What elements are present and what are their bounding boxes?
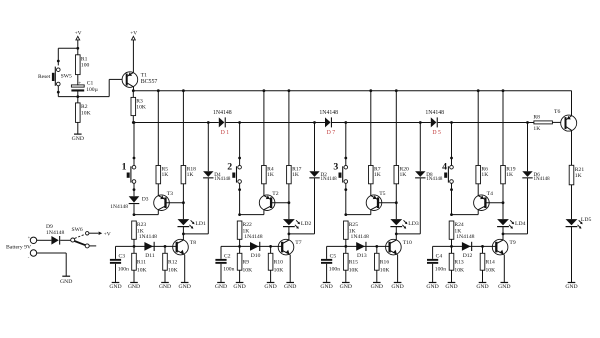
diode D12 1N4148	[456, 234, 474, 259]
node switch 2 top	[238, 121, 241, 159]
svg-text:R3: R3	[136, 98, 143, 104]
svg-text:GND: GND	[371, 284, 383, 290]
switch SW6	[71, 227, 97, 248]
wire switch 2 to junction	[239, 190, 241, 215]
svg-text:GND: GND	[320, 284, 332, 290]
svg-text:1K: 1K	[533, 126, 540, 132]
ground (T10)	[391, 283, 403, 291]
svg-text:GND: GND	[233, 284, 245, 290]
svg-text:GND: GND	[498, 284, 510, 290]
svg-text:10K: 10K	[81, 110, 91, 116]
node lower bus left	[344, 245, 347, 248]
svg-text:1K: 1K	[374, 172, 381, 178]
LED LD4	[497, 219, 525, 229]
wire T5 collector	[370, 210, 372, 215]
wire lower bus	[433, 245, 497, 247]
svg-text:+V: +V	[104, 231, 111, 237]
wire D8 to LD3 junction	[396, 178, 420, 234]
svg-text:T4: T4	[487, 191, 493, 197]
svg-text:1K: 1K	[292, 172, 299, 178]
node switch 3 top	[344, 121, 347, 159]
svg-text:R16: R16	[380, 260, 390, 266]
wire R4 to T2 emitter	[263, 184, 265, 196]
transistor T3	[154, 191, 173, 210]
svg-text:1K: 1K	[267, 172, 274, 178]
node LD4 cathode junction	[502, 227, 505, 240]
resistor R23 1K	[132, 221, 147, 246]
wire battery + to D9	[37, 239, 52, 241]
svg-text:T10: T10	[403, 240, 412, 246]
svg-text:C3: C3	[119, 254, 126, 260]
svg-text:R24: R24	[454, 222, 464, 228]
node lower bus left	[238, 245, 241, 248]
LED LD5	[566, 217, 592, 229]
node T7 base junction	[269, 245, 272, 248]
transistor T2	[259, 191, 278, 210]
ground (T8)	[179, 283, 191, 291]
svg-text:T5: T5	[379, 191, 385, 197]
svg-text:T8: T8	[190, 240, 196, 246]
svg-text:GND: GND	[445, 284, 457, 290]
svg-text:4: 4	[442, 162, 447, 173]
resistor R13 10K	[449, 246, 464, 282]
wire T7 emitter to ground	[289, 255, 291, 282]
ground (C4)	[426, 283, 438, 291]
svg-text:100n: 100n	[223, 267, 234, 273]
resistor R5 1K	[156, 89, 168, 184]
svg-text:GND: GND	[215, 284, 227, 290]
resistor R15 10K	[344, 246, 359, 282]
node R24 top junction	[450, 213, 478, 216]
svg-text:Battery 9V: Battery 9V	[6, 245, 32, 251]
svg-text:R22: R22	[243, 222, 253, 228]
svg-text:100n: 100n	[435, 267, 446, 273]
svg-text:1K: 1K	[575, 173, 582, 179]
ground (battery)	[60, 276, 72, 285]
diode D6 1N4148	[522, 121, 550, 182]
diode D11 1N4148	[139, 234, 157, 259]
diode D10 1N4148	[244, 234, 262, 259]
resistor R17 1K	[287, 89, 302, 184]
svg-text:T1: T1	[141, 72, 147, 78]
resistor R14 10K	[480, 246, 495, 282]
node T9 base junction	[481, 245, 484, 248]
node LD3 cathode junction	[395, 227, 398, 240]
wire T2 base	[271, 202, 289, 204]
svg-text:1N4148: 1N4148	[321, 177, 338, 182]
svg-text:10K: 10K	[349, 267, 359, 273]
svg-text:GND: GND	[264, 284, 276, 290]
svg-text:1N4148: 1N4148	[244, 234, 262, 240]
svg-text:R21: R21	[575, 167, 585, 173]
wire T10 emitter to ground	[397, 255, 399, 282]
svg-text:1N4148: 1N4148	[351, 234, 369, 240]
svg-text:C2: C2	[224, 254, 231, 260]
wire base net	[58, 79, 122, 96]
svg-text:GND: GND	[109, 284, 121, 290]
wire D6 to LD4 junction	[503, 178, 528, 234]
node LD1 cathode junction	[182, 227, 185, 240]
svg-text:1N4148: 1N4148	[139, 234, 157, 240]
ground (R13)	[445, 283, 457, 291]
svg-text:1N4148: 1N4148	[534, 177, 551, 182]
power +V (reset rail)	[75, 30, 82, 48]
wire rail to SW5	[58, 48, 78, 61]
svg-text:Reset: Reset	[38, 74, 51, 80]
battery 9V terminals	[6, 234, 37, 259]
ground (R15)	[340, 283, 352, 291]
svg-text:GND: GND	[391, 284, 403, 290]
wire D3 to junction	[133, 204, 135, 215]
transistor T8	[173, 239, 197, 255]
svg-text:D 1: D 1	[221, 130, 230, 136]
transistor T10	[386, 239, 412, 255]
svg-text:T9: T9	[509, 240, 515, 246]
diode D8 1N4148	[415, 121, 443, 182]
wire base bus segment 2	[226, 122, 325, 124]
svg-text:GND: GND	[565, 284, 577, 290]
svg-text:T3: T3	[167, 191, 173, 197]
wire T5 base	[378, 202, 396, 204]
svg-text:10K: 10K	[136, 105, 146, 111]
svg-text:D3: D3	[142, 197, 149, 203]
wire switch 1 to D3	[133, 190, 135, 197]
svg-text:100n: 100n	[329, 267, 340, 273]
svg-text:1N4148: 1N4148	[213, 110, 232, 116]
diode D3 1N4148	[110, 196, 148, 210]
resistor R1 100	[76, 48, 90, 85]
resistor R6 1K	[476, 89, 488, 184]
svg-text:SW6: SW6	[72, 227, 83, 233]
svg-text:100: 100	[81, 63, 90, 69]
node T1 collector junction	[132, 89, 135, 92]
svg-text:R13: R13	[454, 260, 464, 266]
ground (T7)	[284, 283, 296, 291]
svg-text:1N4148: 1N4148	[110, 204, 128, 210]
node T10 base junction	[375, 245, 378, 248]
svg-text:R12: R12	[168, 260, 178, 266]
ground (T9)	[498, 283, 510, 291]
svg-text:GND: GND	[426, 284, 438, 290]
svg-text:10K: 10K	[274, 267, 284, 273]
wire T8 emitter to ground	[184, 255, 186, 282]
wire T3 collector	[157, 210, 159, 215]
resistor R25 1K	[344, 221, 359, 246]
node R22 top junction	[238, 213, 264, 216]
svg-text:SW5: SW5	[61, 74, 72, 80]
svg-text:1K: 1K	[162, 172, 169, 178]
switch SW5 (Reset)	[38, 60, 72, 97]
svg-text:LD1: LD1	[195, 221, 206, 227]
svg-text:GND: GND	[72, 136, 84, 142]
svg-text:R11: R11	[137, 260, 146, 266]
ground (R11)	[128, 283, 140, 291]
wire D4 to LD1 junction	[183, 178, 208, 234]
switch 3	[333, 158, 347, 191]
wire R17 to LD2	[288, 184, 291, 219]
svg-text:+V: +V	[130, 30, 137, 36]
ground (C2)	[215, 283, 227, 291]
capacitor C2 100n	[215, 246, 234, 282]
ground (R16)	[371, 283, 383, 291]
svg-text:1N4148: 1N4148	[46, 230, 64, 236]
wire R5 to T3 emitter	[157, 184, 159, 196]
wire T6 emitter to bus	[571, 91, 573, 116]
resistor R7 1K	[369, 89, 381, 184]
wire T9 emitter to ground	[503, 255, 505, 282]
svg-text:GND: GND	[60, 279, 72, 285]
wire R19 to LD4	[502, 184, 505, 219]
svg-text:R1: R1	[81, 56, 88, 62]
resistor R20 1K	[394, 89, 409, 184]
wire T3 base	[166, 202, 184, 204]
svg-text:1N4148: 1N4148	[319, 110, 338, 116]
wire T4 collector	[477, 210, 479, 215]
ground (C5)	[320, 283, 332, 291]
svg-text:T6: T6	[554, 109, 560, 115]
svg-text:10K: 10K	[168, 267, 178, 273]
ground (R14)	[476, 283, 488, 291]
ground (R10)	[264, 283, 276, 291]
LED LD2	[283, 219, 311, 229]
wire R8 to T6 base	[552, 121, 561, 123]
resistor R21 1K	[569, 165, 584, 185]
svg-text:BC557: BC557	[141, 79, 158, 85]
wire lower bus	[116, 245, 177, 247]
wire D9 to SW6	[60, 239, 70, 241]
ground (C3)	[109, 283, 121, 291]
power +V (T1 emitter)	[130, 30, 137, 72]
svg-text:1K: 1K	[481, 172, 488, 178]
svg-text:3: 3	[333, 162, 338, 173]
svg-text:LD3: LD3	[408, 221, 419, 227]
capacitor C3 100n	[110, 246, 129, 282]
svg-text:GND: GND	[159, 284, 171, 290]
resistor R3 10K	[131, 91, 146, 123]
svg-text:GND: GND	[284, 284, 296, 290]
capacitor C1 100u	[71, 80, 98, 96]
wire T6 collector	[571, 130, 573, 165]
diode D9 1N4148	[46, 224, 64, 245]
node lower bus left	[450, 245, 453, 248]
svg-text:D10: D10	[251, 253, 261, 259]
svg-text:10K: 10K	[486, 267, 496, 273]
diode D5 1N4148	[425, 110, 444, 136]
svg-text:1N4148: 1N4148	[426, 177, 443, 182]
svg-text:D12: D12	[463, 253, 473, 259]
svg-text:C1: C1	[87, 81, 94, 87]
svg-text:+: +	[78, 80, 81, 86]
svg-text:R9: R9	[243, 260, 250, 266]
LED LD1	[178, 219, 206, 229]
svg-text:R2: R2	[81, 104, 88, 110]
wire R18 to LD1	[182, 184, 185, 219]
svg-text:1: 1	[122, 162, 127, 173]
resistor R2 10K	[76, 97, 91, 134]
transistor T1 BC557	[122, 72, 157, 88]
transistor T5	[366, 191, 385, 210]
wire LD5 to ground	[571, 227, 573, 282]
resistor R10 10K	[268, 246, 283, 282]
wire top supply bus	[133, 91, 571, 116]
svg-text:+V: +V	[75, 30, 82, 36]
resistor R9 10K	[237, 246, 252, 282]
svg-text:1K: 1K	[506, 172, 513, 178]
svg-text:R23: R23	[137, 222, 147, 228]
resistor R18 1K	[181, 89, 196, 184]
transistor T6	[554, 109, 577, 131]
svg-text:GND: GND	[476, 284, 488, 290]
wire switch 4 to junction	[451, 190, 453, 215]
wire T2 collector	[263, 210, 265, 215]
svg-text:2: 2	[227, 162, 232, 173]
svg-text:R25: R25	[349, 222, 359, 228]
wire T4 base	[485, 202, 503, 204]
switch 2	[227, 158, 241, 191]
wire R21 to LD5	[571, 185, 573, 219]
wire R6 to T4 emitter	[477, 184, 479, 196]
node T8 base junction	[164, 245, 167, 248]
wire switch 3 to junction	[345, 190, 347, 215]
resistor R4 1K	[262, 89, 274, 184]
svg-text:10K: 10K	[454, 267, 464, 273]
transistor T9	[492, 239, 516, 255]
node rail junction	[76, 47, 79, 50]
svg-text:T2: T2	[272, 191, 278, 197]
svg-text:1N4148: 1N4148	[456, 234, 474, 240]
svg-text:10K: 10K	[243, 267, 253, 273]
diode D1 1N4148	[213, 110, 232, 136]
svg-text:1K: 1K	[187, 172, 194, 178]
node LD2 cathode junction	[288, 227, 291, 240]
wire base bus segment 4	[438, 122, 534, 124]
svg-text:100µ: 100µ	[86, 87, 98, 93]
switch 1	[122, 158, 136, 191]
svg-text:GND: GND	[340, 284, 352, 290]
wire D2 to LD2 junction	[289, 178, 315, 234]
resistor R19 1K	[501, 89, 516, 184]
svg-text:D 7: D 7	[327, 130, 336, 136]
svg-text:D13: D13	[357, 253, 367, 259]
ground (R2)	[72, 134, 84, 142]
transistor T7	[278, 239, 302, 255]
diode D2 1N4148	[309, 121, 337, 182]
svg-text:R15: R15	[349, 260, 359, 266]
svg-text:C4: C4	[436, 254, 443, 260]
svg-text:C5: C5	[330, 254, 337, 260]
svg-text:GND: GND	[128, 284, 140, 290]
ground (R9)	[233, 283, 245, 291]
wire base bus segment 3	[332, 122, 431, 124]
svg-text:1K: 1K	[400, 172, 407, 178]
node R25 top junction	[344, 213, 370, 216]
capacitor C5 100n	[321, 246, 340, 282]
switch 4	[442, 158, 453, 191]
node R23 top junction	[133, 213, 159, 216]
wire battery - to ground	[37, 253, 66, 276]
svg-text:1N4148: 1N4148	[214, 177, 231, 182]
resistor R22 1K	[237, 221, 252, 246]
svg-text:LD4: LD4	[515, 221, 526, 227]
svg-text:R8: R8	[533, 114, 540, 120]
node C1/R2/base junction	[76, 95, 79, 98]
wire R7 to T5 emitter	[370, 184, 372, 196]
ground (LD5)	[565, 283, 577, 291]
wire lower bus	[327, 245, 390, 247]
svg-text:R14: R14	[486, 260, 496, 266]
svg-text:1N4148: 1N4148	[425, 110, 444, 116]
diode D7 1N4148	[319, 110, 338, 136]
wire lower bus	[221, 245, 282, 247]
wire T1 collector	[133, 87, 135, 91]
svg-text:R10: R10	[274, 260, 284, 266]
transistor T4	[474, 191, 493, 210]
svg-text:T7: T7	[295, 240, 301, 246]
diode D13 1N4148	[351, 234, 369, 259]
svg-text:LD2: LD2	[301, 221, 312, 227]
wire R20 to LD3	[395, 184, 398, 219]
resistor R8 1K	[533, 114, 552, 132]
power +V tap (SW6)	[89, 231, 111, 237]
node lower bus left	[133, 245, 136, 248]
node switch 4 top	[450, 121, 453, 159]
resistor R11 10K	[132, 246, 147, 282]
ground (R12)	[159, 283, 171, 291]
LED LD3	[390, 219, 418, 229]
svg-text:D 5: D 5	[432, 130, 441, 136]
resistor R16 10K	[375, 246, 390, 282]
capacitor C4 100n	[427, 246, 446, 282]
svg-text:100n: 100n	[118, 267, 129, 273]
diode D4 1N4148	[203, 121, 231, 182]
svg-text:GND: GND	[179, 284, 191, 290]
resistor R12 10K	[163, 246, 178, 282]
node switch 1 top	[133, 121, 136, 159]
svg-text:10K: 10K	[380, 267, 390, 273]
resistor R24 1K	[449, 221, 464, 246]
svg-text:D11: D11	[145, 253, 155, 259]
svg-text:10K: 10K	[137, 267, 147, 273]
wire base bus segment 1	[132, 121, 219, 124]
svg-text:LD5: LD5	[581, 217, 592, 223]
